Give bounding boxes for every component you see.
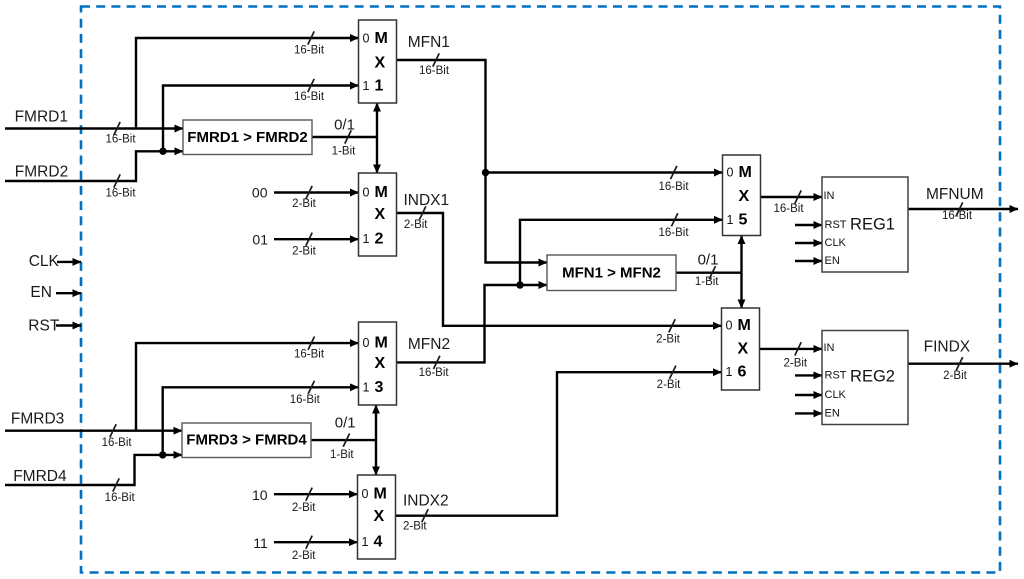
- svg-text:2: 2: [375, 231, 384, 248]
- svg-text:FMRD3: FMRD3: [11, 410, 64, 427]
- svg-text:1: 1: [363, 232, 370, 246]
- svg-text:1: 1: [375, 78, 384, 95]
- svg-text:2-Bit: 2-Bit: [292, 245, 316, 257]
- svg-text:EN: EN: [825, 407, 840, 419]
- svg-text:16-Bit: 16-Bit: [294, 45, 325, 57]
- svg-text:M: M: [375, 30, 388, 47]
- svg-text:16-Bit: 16-Bit: [658, 227, 689, 239]
- svg-text:1: 1: [726, 365, 733, 379]
- svg-text:X: X: [738, 341, 749, 358]
- svg-text:01: 01: [252, 232, 268, 248]
- svg-text:0/1: 0/1: [698, 251, 719, 268]
- svg-text:MFN1: MFN1: [408, 34, 450, 51]
- svg-text:X: X: [375, 355, 386, 372]
- svg-text:INDX1: INDX1: [403, 192, 449, 209]
- svg-text:FMRD1: FMRD1: [15, 109, 68, 126]
- svg-text:X: X: [375, 206, 386, 223]
- svg-text:00: 00: [252, 185, 268, 201]
- svg-text:IN: IN: [824, 342, 835, 354]
- svg-text:16-Bit: 16-Bit: [658, 181, 689, 193]
- svg-text:10: 10: [252, 487, 268, 503]
- svg-text:2-Bit: 2-Bit: [656, 333, 680, 345]
- svg-text:1: 1: [363, 381, 370, 395]
- svg-text:2-Bit: 2-Bit: [292, 502, 316, 514]
- svg-text:16-Bit: 16-Bit: [290, 394, 321, 406]
- svg-text:16-Bit: 16-Bit: [419, 65, 450, 77]
- svg-text:0: 0: [727, 166, 734, 180]
- svg-text:0: 0: [363, 186, 370, 200]
- svg-text:0: 0: [363, 336, 370, 350]
- svg-text:2-Bit: 2-Bit: [783, 357, 807, 369]
- svg-text:16-Bit: 16-Bit: [773, 203, 804, 215]
- svg-text:FMRD4: FMRD4: [13, 468, 67, 485]
- svg-text:INDX2: INDX2: [403, 493, 449, 510]
- svg-text:16-Bit: 16-Bit: [102, 437, 133, 449]
- svg-text:4: 4: [374, 534, 383, 551]
- svg-text:16-Bit: 16-Bit: [419, 367, 450, 379]
- svg-text:CLK: CLK: [29, 253, 60, 270]
- svg-text:16-Bit: 16-Bit: [294, 349, 325, 361]
- svg-text:MFN2: MFN2: [408, 336, 450, 353]
- svg-text:6: 6: [738, 364, 747, 381]
- svg-text:0: 0: [363, 32, 370, 46]
- svg-text:16-Bit: 16-Bit: [105, 187, 136, 199]
- svg-text:MFN1 > MFN2: MFN1 > MFN2: [562, 264, 661, 281]
- svg-text:11: 11: [253, 535, 268, 551]
- svg-text:2-Bit: 2-Bit: [292, 198, 316, 210]
- svg-text:FMRD1 > FMRD2: FMRD1 > FMRD2: [187, 129, 307, 146]
- svg-text:M: M: [375, 184, 388, 201]
- svg-text:X: X: [375, 55, 386, 72]
- svg-text:CLK: CLK: [825, 389, 847, 401]
- svg-text:FINDX: FINDX: [924, 339, 971, 356]
- svg-text:16-Bit: 16-Bit: [105, 492, 136, 504]
- svg-text:0: 0: [362, 487, 369, 501]
- svg-text:1: 1: [363, 79, 370, 93]
- svg-text:X: X: [739, 188, 750, 205]
- svg-text:1: 1: [362, 535, 369, 549]
- svg-text:RST: RST: [825, 219, 847, 231]
- svg-text:FMRD3 > FMRD4: FMRD3 > FMRD4: [186, 432, 307, 449]
- svg-text:5: 5: [739, 212, 748, 229]
- svg-text:2-Bit: 2-Bit: [943, 370, 967, 382]
- svg-text:2-Bit: 2-Bit: [292, 550, 316, 562]
- svg-text:2-Bit: 2-Bit: [657, 379, 681, 391]
- svg-text:M: M: [375, 335, 388, 352]
- svg-text:1-Bit: 1-Bit: [695, 276, 719, 288]
- svg-text:0/1: 0/1: [335, 414, 356, 431]
- svg-text:X: X: [374, 508, 385, 525]
- svg-text:REG2: REG2: [850, 368, 895, 386]
- svg-text:IN: IN: [824, 190, 835, 202]
- svg-text:M: M: [739, 164, 752, 181]
- svg-text:2-Bit: 2-Bit: [404, 219, 428, 231]
- svg-text:MFNUM: MFNUM: [926, 186, 984, 203]
- svg-text:3: 3: [375, 379, 384, 396]
- svg-text:16-Bit: 16-Bit: [942, 210, 973, 222]
- svg-text:M: M: [738, 317, 751, 334]
- svg-text:EN: EN: [30, 284, 52, 301]
- svg-text:REG1: REG1: [850, 216, 895, 234]
- svg-text:1-Bit: 1-Bit: [330, 449, 354, 461]
- svg-text:RST: RST: [28, 318, 60, 335]
- svg-text:16-Bit: 16-Bit: [294, 91, 325, 103]
- svg-text:1: 1: [727, 213, 734, 227]
- svg-text:16-Bit: 16-Bit: [105, 134, 136, 146]
- svg-text:M: M: [374, 486, 387, 503]
- svg-text:EN: EN: [825, 255, 840, 267]
- svg-text:0: 0: [726, 319, 733, 333]
- svg-text:CLK: CLK: [825, 237, 847, 249]
- svg-text:FMRD2: FMRD2: [15, 163, 68, 180]
- svg-text:RST: RST: [825, 369, 847, 381]
- svg-text:1-Bit: 1-Bit: [332, 146, 356, 158]
- svg-text:2-Bit: 2-Bit: [403, 520, 427, 532]
